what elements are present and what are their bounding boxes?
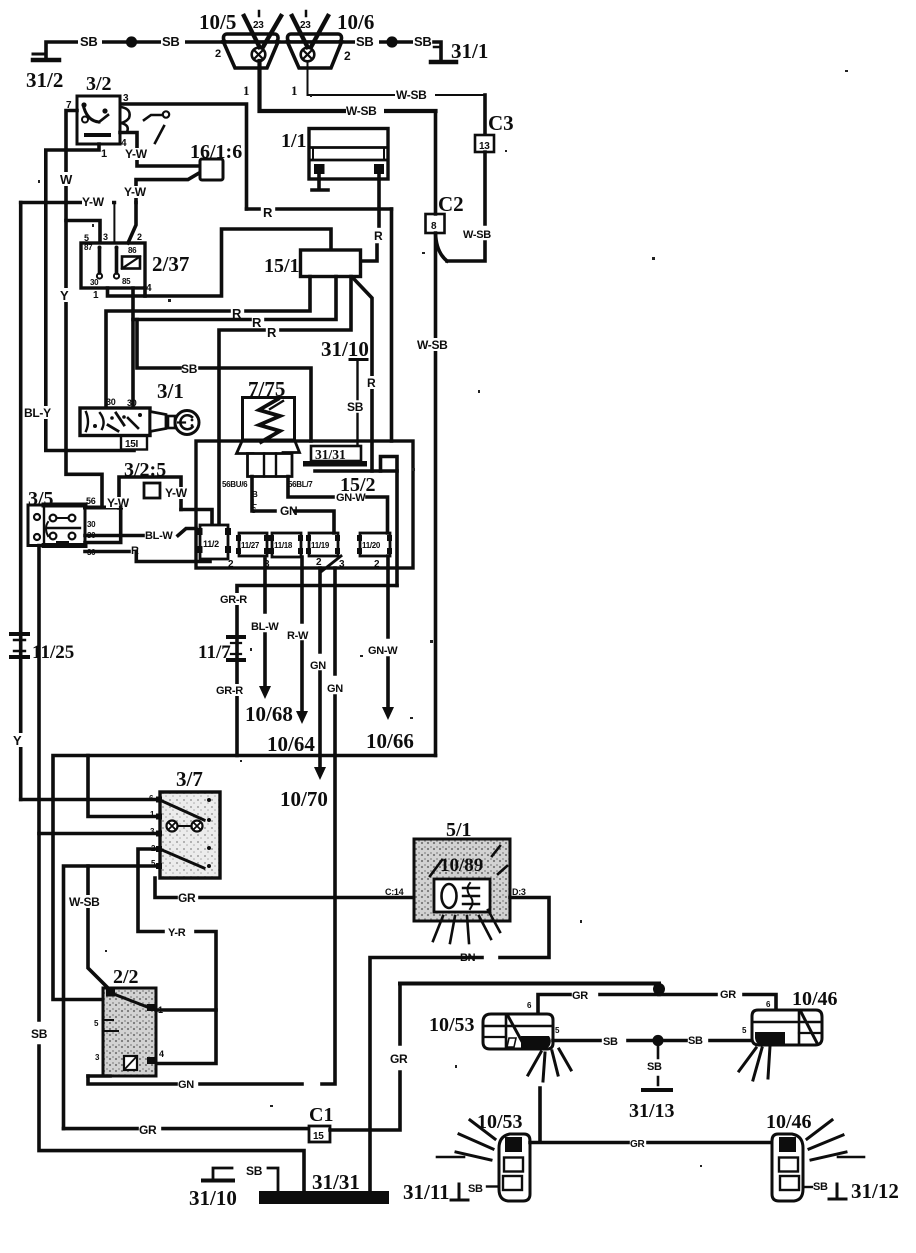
wire R horizontal from 3/2 column to right column [247,205,392,220]
wire GR from C1 junction through lamps [64,1123,310,1137]
svg-text:Y-W: Y-W [125,147,148,161]
rear fog lamp 10/46 [766,1111,864,1201]
svg-text:85: 85 [122,277,131,286]
svg-text:31/12: 31/12 [851,1179,899,1203]
3/1 connector cone and lamp symbol [150,411,199,435]
wire BL-Y from 3/2 pin1 to 3/1 pin 15I [24,144,134,451]
svg-text:31/13: 31/13 [629,1100,675,1122]
svg-text:D:3: D:3 [512,887,526,897]
wire R 15/1 to 3/1 pin30 right [133,277,336,331]
connector 11/19 [306,533,345,570]
wire R 15/1 to connector 11/2 [219,277,351,526]
wire from Y-W junction down to 2/37 left pin [113,203,115,244]
wire GN-W from 7/75 right leg to 11/20 [288,477,388,534]
junction dot SB [652,1035,663,1046]
svg-text:3/2: 3/2 [86,73,112,95]
connector box 15/2 outline [196,441,413,568]
wire BL-W from 3/5 to connector 11/2 [85,529,196,543]
svg-text:1: 1 [243,83,250,98]
wire 2/37 pin4 stub [143,288,147,296]
switch 3/2:5 [119,459,181,510]
wire 2/2 pin1 [156,1008,216,1012]
svg-text:GR: GR [139,1123,157,1137]
wire Y-W pin4 of 3/2 to 16/1:6 [120,133,200,167]
connector 15/2 pin bracket [381,457,398,586]
ground 31/11 [403,1180,499,1204]
svg-text:31/31: 31/31 [315,447,346,462]
svg-text:Y: Y [13,733,22,748]
svg-text:SB: SB [414,34,431,49]
wire left rail into 3/7 pin1 [21,798,160,802]
svg-text:6: 6 [766,1000,771,1009]
front fog lamp 10/53 [429,1014,571,1081]
svg-text:SB: SB [813,1181,828,1193]
svg-text:2: 2 [137,232,142,242]
svg-text:5: 5 [94,1019,99,1028]
wire GR rear lamps [530,1088,772,1150]
lighting switch 3/1 [80,379,184,436]
wire SB rail from 3/5 down to 31/31 [31,546,304,1192]
ground block 31/31 upper [303,446,367,467]
svg-text:11/2: 11/2 [203,539,219,549]
svg-text:C2: C2 [438,192,464,216]
svg-text:BN: BN [460,952,476,964]
svg-text:5: 5 [742,1026,747,1035]
key switch lever icon [144,111,169,143]
svg-text:30: 30 [90,278,99,287]
wire labels SB right [355,33,437,49]
lamp connector 10/6 [288,10,375,98]
svg-text:30: 30 [106,397,116,407]
svg-text:GR: GR [390,1052,408,1066]
3/1 pin 15I box [121,436,147,450]
svg-text:11/7: 11/7 [198,642,231,663]
wire GR to 10/46 pin6 [659,989,776,1010]
lamp connector 10/5 [199,10,281,98]
svg-text:Y-W: Y-W [107,496,130,510]
wire GN from 7/75 left leg [252,477,334,534]
wire GR feed horizontal [400,982,659,986]
svg-text:1: 1 [101,148,107,160]
junction dot top-left [126,36,137,47]
svg-text:10/5: 10/5 [199,10,236,34]
wire GR from 3/7 to 5/1 C:14 [155,878,414,905]
svg-text:23: 23 [300,20,311,31]
junction dot GR [653,983,665,995]
svg-text:15/1: 15/1 [264,255,300,277]
svg-text:Y: Y [60,288,69,303]
rear fog lamp 10/53 [437,1111,530,1201]
svg-text:31/31: 31/31 [312,1170,360,1194]
svg-text:30: 30 [87,520,96,529]
svg-text:23: 23 [253,20,264,31]
svg-text:1: 1 [93,290,99,301]
svg-text:Y-W: Y-W [124,185,147,199]
wire 3/5 pin 56 [85,496,134,510]
svg-text:11/20: 11/20 [362,541,381,550]
svg-text:R: R [263,205,273,220]
svg-text:SB: SB [603,1036,618,1048]
svg-text:SB: SB [647,1061,662,1073]
svg-text:GN-W: GN-W [368,645,398,657]
wire SB between lamps and to right [223,40,427,44]
wire SB from R junction to connector box [137,320,311,442]
svg-text:GN: GN [178,1079,194,1091]
svg-text:3: 3 [103,232,108,242]
svg-text:R: R [374,229,383,243]
wire Y-W loop to 3/5 lower pin [85,508,121,543]
svg-text:16/1:6: 16/1:6 [190,141,242,163]
svg-text:87: 87 [84,243,93,252]
svg-text:SB: SB [80,34,97,49]
relay 2/2 [94,966,164,1076]
svg-text:10/89: 10/89 [440,855,483,876]
svg-text:C1: C1 [309,1104,333,1126]
svg-text:10/70: 10/70 [280,787,328,811]
wire Y-W into 2/37 coil pin [128,203,136,244]
diagonal at 11/19 [322,556,341,571]
wire GN long from 11/19 to 2/2 [88,568,343,1091]
svg-text:31/1: 31/1 [451,39,488,63]
svg-text:R: R [367,376,376,390]
junction dot top-right [386,36,397,47]
wire from 3/7 pin5 down to GR C1 wire [64,866,161,1129]
svg-text:4: 4 [146,283,152,294]
ground 31/12 [803,1179,899,1203]
connector 11/27 [236,533,270,570]
svg-text:86: 86 [128,246,137,255]
wire Y-R from 3/7 pin4 to 2/2 [138,849,216,1064]
svg-text:3: 3 [95,1053,100,1062]
ignition switch 3/2 [66,73,130,160]
svg-text:31/10: 31/10 [321,337,369,361]
connector C1 pin 15 [309,1104,333,1142]
wire R from 3/5 to 11/2 pin 2 [85,545,210,562]
svg-text:10/66: 10/66 [366,729,414,753]
svg-text:BL-W: BL-W [251,621,279,633]
wire 2/37 coil down through R wires to 3/1 [131,288,135,408]
svg-text:BL-W: BL-W [145,530,173,542]
svg-text:SB: SB [688,1035,703,1047]
relay 15/1 [264,250,361,277]
svg-text:10/6: 10/6 [337,10,374,34]
svg-text:SB: SB [181,362,198,376]
svg-text:SB: SB [162,34,179,49]
svg-text:2/2: 2/2 [113,966,139,988]
svg-text:30: 30 [127,398,137,408]
svg-text:W-SB: W-SB [417,338,448,352]
svg-text:GN: GN [310,660,326,672]
svg-text:2: 2 [228,559,234,570]
wire W-SB horizontal rail to 2/2 [53,756,436,1000]
wire BL-W arrow to 10/68 [245,559,293,726]
svg-text:2: 2 [215,48,221,60]
svg-text:R: R [131,545,139,557]
svg-text:R-W: R-W [287,630,309,642]
connector 11/20 [357,533,392,570]
svg-text:W: W [60,172,73,187]
battery 1/1 [281,129,388,191]
svg-text:11/19: 11/19 [311,541,330,550]
svg-text:31/11: 31/11 [403,1180,450,1204]
wire W-SB from 10/5 pin1 to C2 column [260,61,436,118]
wire GN-W arrow to 10/66 [366,556,414,753]
svg-text:GR: GR [720,989,736,1001]
svg-text:SB: SB [246,1164,263,1178]
wire 2/2 bottom to GN [88,1074,110,1078]
wire R from 1/1 right post [361,174,384,261]
svg-text:C3: C3 [488,111,514,135]
connector 11/25 on left rail [11,634,74,663]
wire 2/37 pin1 to 15/1 top [108,229,332,296]
svg-text:W-SB: W-SB [396,88,427,102]
connector 16/1:6 [190,141,242,180]
svg-text:1/1: 1/1 [281,130,307,152]
svg-text:31/2: 31/2 [26,68,63,92]
svg-text:10/46: 10/46 [792,988,838,1010]
svg-text:SB: SB [356,34,373,49]
wire from rail to 3/7 pin2 [88,756,160,817]
wire Y-W from 3/2:5 to connector 11/2 [165,486,212,525]
ground 31/2 [26,54,63,92]
wire W-SB from rail to relay 2/2 [68,866,111,991]
svg-text:2: 2 [374,559,380,570]
light switch 3/7 [149,767,220,878]
wire GN arrow to 10/70 [280,568,328,811]
svg-text:GR: GR [572,990,588,1002]
wire GR-R from 15/2 to 11/7 [216,586,397,756]
svg-text:2: 2 [344,49,351,63]
svg-text:8: 8 [431,221,437,232]
svg-text:5: 5 [84,233,89,243]
connector C3 pin 13 [475,95,514,152]
svg-text:15I: 15I [125,439,139,450]
svg-text:1: 1 [291,83,298,98]
svg-text:GR: GR [178,891,196,905]
wire W from 3/2 pin7 [59,111,77,203]
connector C2 pin 8 [426,192,464,261]
svg-text:Y-W: Y-W [82,195,105,209]
svg-text:BL-Y: BL-Y [24,406,51,420]
front fog lamp 10/46 [739,988,838,1080]
wire SB top-left rail [46,33,223,58]
left rail wire from Y-W to 3/7 pin1 [12,203,24,800]
svg-text:W-SB: W-SB [69,895,100,909]
svg-text:31/10: 31/10 [189,1186,237,1210]
svg-text:R: R [267,325,277,340]
svg-text:Y-R: Y-R [168,927,186,939]
svg-text:SB: SB [468,1183,483,1195]
svg-text:11/18: 11/18 [274,541,293,550]
svg-text:GN: GN [280,504,297,518]
wire Y-W horizontal to left rail [21,195,115,209]
svg-text:GR-R: GR-R [216,685,243,697]
svg-text:56BU/6: 56BU/6 [222,480,248,489]
ground bar 31/31 [259,1170,389,1204]
wire Y from junction to 2/37 pin5 [66,221,100,244]
svg-text:56BL/7: 56BL/7 [288,480,313,489]
wire R 15/1 to 3/1 pin30 left [106,277,310,409]
ground stub SB 31/10 lower [189,1164,278,1210]
wire BN from 5/1 to ground 31/31 [370,898,549,1192]
ground point 31/10 upper [321,337,369,446]
wire under 31/31 bar [315,469,397,473]
wire R vertical right to connector box top [390,209,394,441]
connector 11/2 [197,525,235,570]
svg-text:Y-W: Y-W [165,486,188,500]
wire from 3/2 pin3 right [122,104,247,209]
svg-text:4: 4 [159,1049,164,1059]
svg-text:R: R [252,315,262,330]
svg-text:3/1: 3/1 [157,379,184,403]
wire Y-W second to 16/1:6 [124,173,200,203]
svg-text:GN: GN [327,683,343,695]
svg-text:SB: SB [31,1027,48,1041]
svg-text:15: 15 [313,1131,324,1142]
ground 31/1 [431,39,488,63]
svg-text:2/37: 2/37 [152,252,189,276]
svg-text:11/27: 11/27 [241,541,260,550]
svg-text:10/64: 10/64 [267,732,315,756]
svg-text:3/7: 3/7 [176,767,203,791]
svg-text:10/68: 10/68 [245,702,293,726]
svg-text:5: 5 [555,1026,560,1035]
svg-text:GN-W: GN-W [336,492,366,504]
svg-text:10/46: 10/46 [766,1111,812,1133]
hazard switch 3/5 [28,488,96,557]
svg-text:GR: GR [630,1139,645,1150]
connector 11/18 [269,533,303,557]
svg-text:10/53: 10/53 [429,1014,475,1036]
svg-text:GR-R: GR-R [220,594,247,606]
svg-text:W-SB: W-SB [346,104,377,118]
svg-text:SB: SB [347,400,364,414]
wire GR to 10/53 pin6 [527,990,659,1014]
svg-text:56: 56 [86,496,96,506]
wire Y left vertical down to 3/5 pin 56 [58,203,102,508]
wire R 15/1 diagonal to 15/2 connector [353,278,378,471]
svg-text:3: 3 [339,559,345,570]
svg-text:6: 6 [527,1001,532,1010]
wire GR from C1 up to fog lamp feed [330,984,408,1131]
ground 31/13 [629,1046,675,1122]
connector 11/7 [198,637,244,663]
wire W-SB main vertical from 10/5 through C2 down [416,111,454,756]
scan noise specks [38,70,848,1167]
fog light relay 5/1 [414,819,526,943]
wire R-W arrow to 10/64 [267,557,315,756]
svg-text:C:14: C:14 [385,887,404,897]
relay 2/37 [81,232,189,301]
svg-text:W-SB: W-SB [463,229,491,241]
flasher unit 7/75 [222,377,313,515]
wire W-SB below C3 [447,152,499,261]
wire SB between front fog lamps [553,1035,752,1048]
wire W-SB from 10/6 pin1 to C3 [308,61,486,102]
